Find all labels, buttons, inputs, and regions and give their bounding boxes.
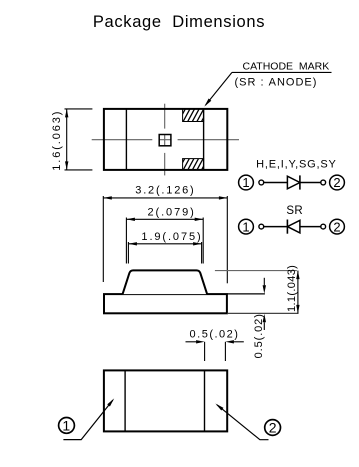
svg-text:(SR : ANODE): (SR : ANODE) bbox=[235, 77, 318, 89]
svg-text:1.9(.075): 1.9(.075) bbox=[141, 231, 202, 243]
svg-text:1.6(.063): 1.6(.063) bbox=[51, 110, 63, 171]
svg-text:3.2(.126): 3.2(.126) bbox=[135, 185, 195, 197]
svg-text:0.5(.02): 0.5(.02) bbox=[253, 313, 265, 358]
svg-text:2(.079): 2(.079) bbox=[148, 207, 196, 219]
svg-text:2: 2 bbox=[333, 219, 340, 234]
svg-text:H,E,I,Y,SG,SY: H,E,I,Y,SG,SY bbox=[256, 159, 337, 171]
svg-text:1: 1 bbox=[242, 219, 249, 234]
svg-text:SR: SR bbox=[286, 205, 303, 217]
svg-text:1.1(.043): 1.1(.043) bbox=[286, 265, 298, 312]
svg-text:1: 1 bbox=[242, 175, 249, 190]
svg-text:0.5(.02): 0.5(.02) bbox=[190, 328, 240, 340]
svg-text:CATHODE MARK: CATHODE MARK bbox=[243, 60, 330, 72]
svg-text:2: 2 bbox=[269, 419, 277, 435]
svg-text:2: 2 bbox=[333, 175, 340, 190]
svg-text:1: 1 bbox=[62, 417, 70, 433]
svg-text:Package Dimensions: Package Dimensions bbox=[93, 13, 265, 31]
